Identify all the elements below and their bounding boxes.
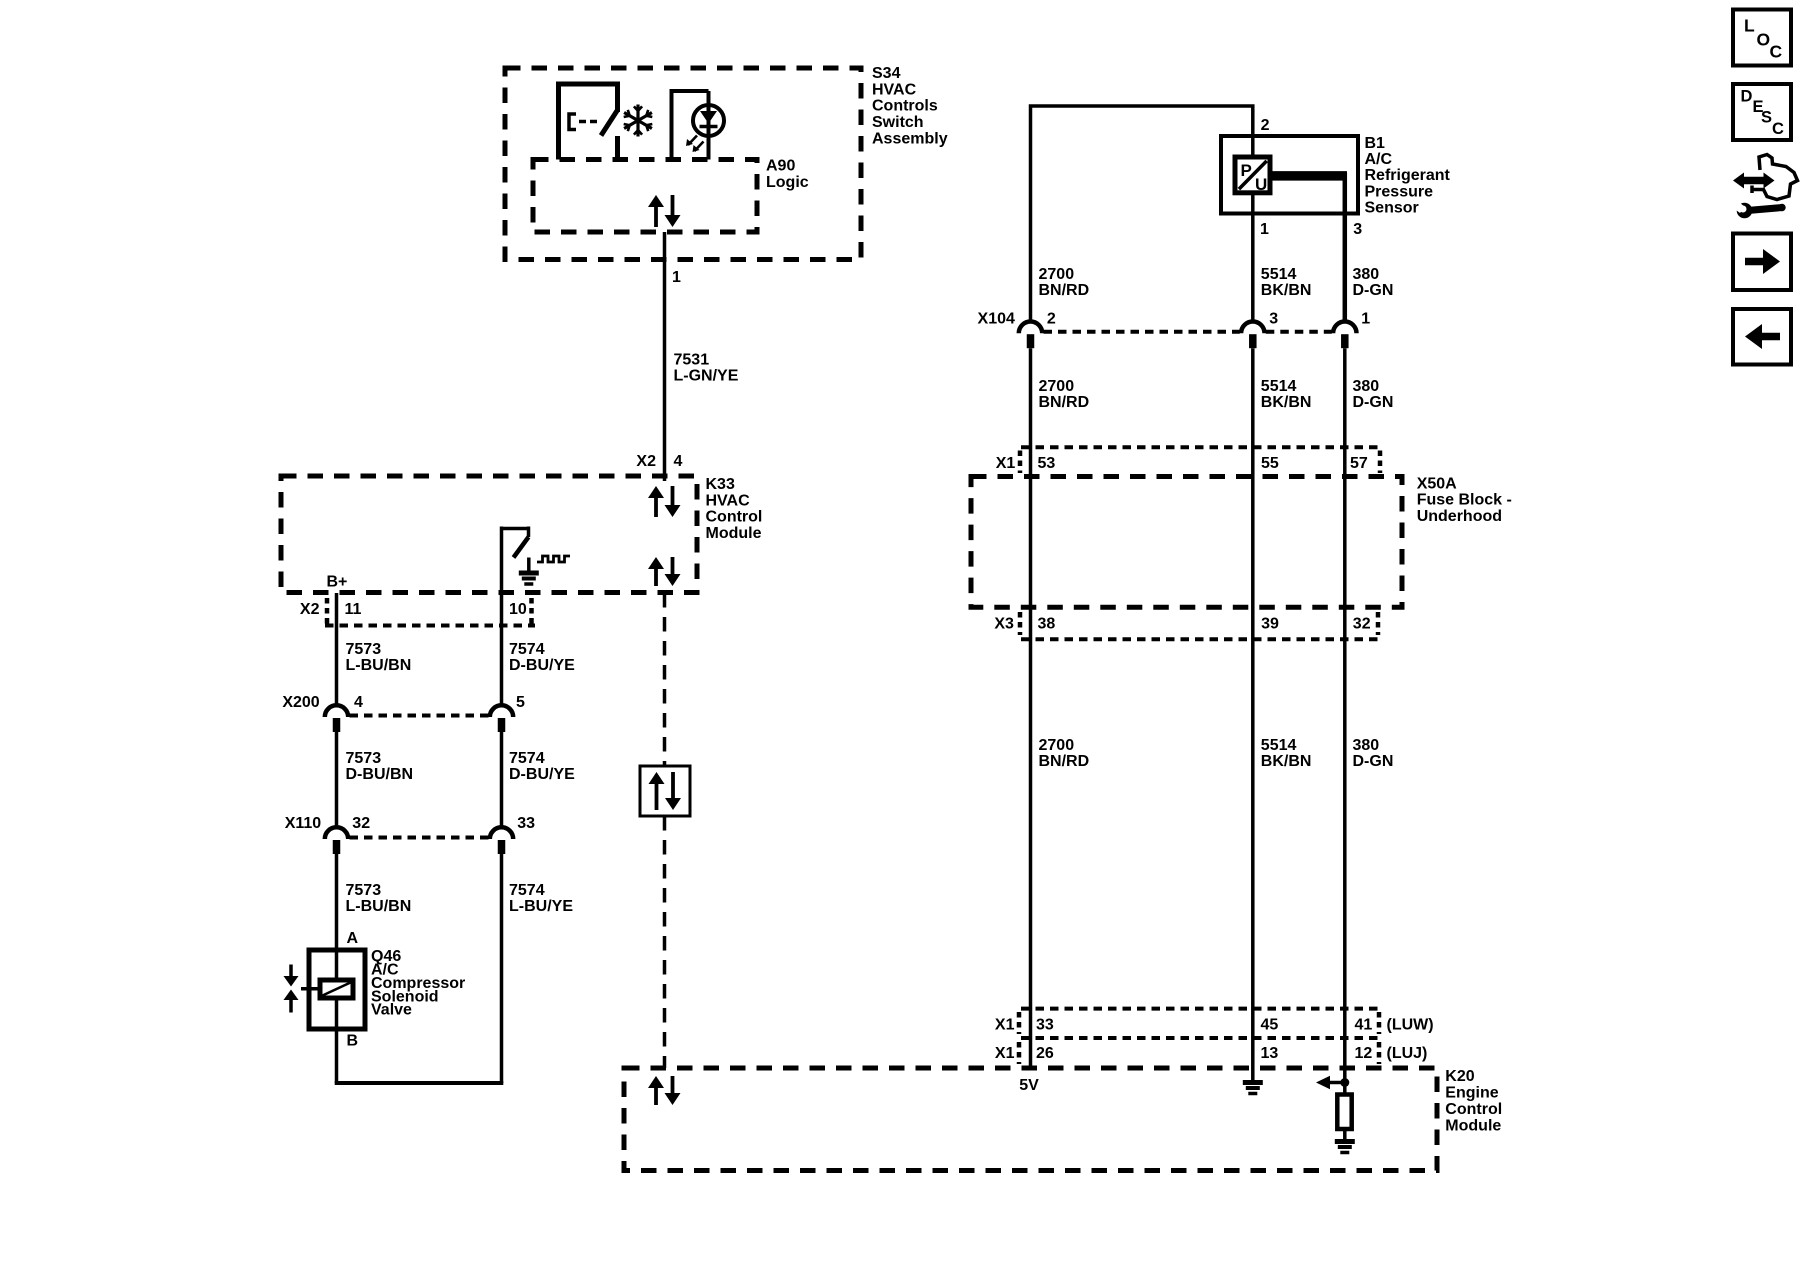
- svg-text:7574: 7574: [509, 882, 545, 899]
- svg-text:3: 3: [1353, 221, 1362, 238]
- svg-text:41: 41: [1355, 1017, 1373, 1034]
- svg-text:D: D: [1741, 88, 1753, 106]
- svg-text:Sensor: Sensor: [1365, 200, 1419, 217]
- svg-text:2: 2: [1261, 117, 1270, 134]
- svg-text:B: B: [347, 1033, 359, 1050]
- svg-text:7574: 7574: [509, 641, 545, 658]
- svg-text:7574: 7574: [509, 750, 545, 767]
- svg-text:(LUW): (LUW): [1387, 1017, 1434, 1034]
- svg-text:D-BU/BN: D-BU/BN: [346, 766, 414, 783]
- svg-text:X200: X200: [282, 694, 319, 711]
- svg-text:C: C: [1770, 42, 1783, 62]
- svg-text:BN/RD: BN/RD: [1039, 394, 1090, 411]
- svg-text:X1: X1: [995, 1045, 1015, 1062]
- svg-text:U: U: [1255, 175, 1267, 194]
- svg-text:X3: X3: [994, 616, 1014, 633]
- svg-text:BK/BN: BK/BN: [1261, 282, 1312, 299]
- svg-text:Control: Control: [1445, 1101, 1502, 1118]
- svg-text:B+: B+: [327, 574, 348, 591]
- svg-text:32: 32: [352, 815, 370, 832]
- svg-text:3: 3: [1269, 311, 1278, 328]
- svg-text:HVAC: HVAC: [706, 492, 751, 509]
- svg-text:53: 53: [1038, 455, 1056, 472]
- svg-text:12: 12: [1355, 1045, 1373, 1062]
- svg-text:39: 39: [1261, 616, 1279, 633]
- svg-text:5514: 5514: [1261, 378, 1297, 395]
- svg-text:1: 1: [1260, 221, 1269, 238]
- svg-text:57: 57: [1350, 455, 1368, 472]
- svg-text:13: 13: [1261, 1045, 1279, 1062]
- svg-text:380: 380: [1353, 266, 1380, 283]
- svg-text:Control: Control: [706, 509, 763, 526]
- svg-text:X50A: X50A: [1417, 475, 1457, 492]
- svg-text:K33: K33: [706, 476, 735, 493]
- svg-text:C: C: [1772, 120, 1784, 138]
- svg-text:D-GN: D-GN: [1353, 753, 1394, 770]
- svg-text:X2: X2: [300, 601, 320, 618]
- svg-text:4: 4: [354, 694, 363, 711]
- svg-text:32: 32: [1353, 616, 1371, 633]
- svg-text:38: 38: [1038, 616, 1056, 633]
- svg-text:X104: X104: [978, 311, 1015, 328]
- svg-text:55: 55: [1261, 455, 1279, 472]
- svg-text:BK/BN: BK/BN: [1261, 394, 1312, 411]
- svg-text:K20: K20: [1445, 1068, 1474, 1085]
- svg-text:A: A: [347, 930, 359, 947]
- svg-text:O: O: [1757, 30, 1771, 50]
- svg-text:L-BU/BN: L-BU/BN: [346, 898, 412, 915]
- svg-text:S34: S34: [872, 65, 901, 82]
- svg-text:L: L: [1744, 16, 1755, 36]
- svg-text:Module: Module: [706, 525, 762, 542]
- svg-text:Engine: Engine: [1445, 1085, 1498, 1102]
- svg-text:7573: 7573: [346, 641, 382, 658]
- svg-text:P: P: [1241, 161, 1252, 180]
- svg-text:BN/RD: BN/RD: [1039, 753, 1090, 770]
- svg-text:L-BU/BN: L-BU/BN: [346, 657, 412, 674]
- svg-text:BK/BN: BK/BN: [1261, 753, 1312, 770]
- svg-text:1: 1: [1361, 311, 1370, 328]
- svg-text:Switch: Switch: [872, 114, 924, 131]
- svg-text:Assembly: Assembly: [872, 130, 948, 147]
- svg-text:(LUJ): (LUJ): [1387, 1045, 1428, 1062]
- svg-text:Refrigerant: Refrigerant: [1365, 167, 1451, 184]
- svg-text:33: 33: [517, 815, 535, 832]
- svg-text:X1: X1: [995, 1017, 1015, 1034]
- svg-text:Module: Module: [1445, 1117, 1501, 1134]
- svg-text:380: 380: [1353, 737, 1380, 754]
- svg-text:380: 380: [1353, 378, 1380, 395]
- svg-text:Logic: Logic: [766, 174, 809, 191]
- svg-text:7573: 7573: [346, 882, 382, 899]
- svg-text:2700: 2700: [1039, 378, 1075, 395]
- svg-text:X110: X110: [285, 815, 322, 832]
- svg-text:2: 2: [1047, 311, 1056, 328]
- svg-text:1: 1: [672, 269, 681, 286]
- svg-text:10: 10: [509, 601, 527, 618]
- svg-text:BN/RD: BN/RD: [1039, 282, 1090, 299]
- svg-text:4: 4: [674, 453, 683, 470]
- svg-text:26: 26: [1036, 1045, 1054, 1062]
- svg-text:L-BU/YE: L-BU/YE: [509, 898, 573, 915]
- svg-text:B1: B1: [1365, 135, 1386, 152]
- svg-text:11: 11: [345, 601, 362, 618]
- svg-text:33: 33: [1036, 1017, 1054, 1034]
- svg-text:5514: 5514: [1261, 266, 1297, 283]
- svg-text:2700: 2700: [1039, 737, 1075, 754]
- svg-text:D-GN: D-GN: [1353, 394, 1394, 411]
- svg-text:5514: 5514: [1261, 737, 1297, 754]
- svg-text:L-GN/YE: L-GN/YE: [674, 368, 739, 385]
- svg-text:S: S: [1761, 109, 1772, 127]
- svg-text:Underhood: Underhood: [1417, 508, 1502, 525]
- svg-text:7531: 7531: [674, 352, 710, 369]
- svg-text:A90: A90: [766, 158, 795, 175]
- svg-text:D-GN: D-GN: [1353, 282, 1394, 299]
- svg-text:Fuse Block -: Fuse Block -: [1417, 492, 1512, 509]
- svg-text:7573: 7573: [346, 750, 382, 767]
- svg-text:X1: X1: [996, 455, 1016, 472]
- svg-text:45: 45: [1261, 1017, 1279, 1034]
- svg-text:A/C: A/C: [1365, 151, 1393, 168]
- svg-text:X2: X2: [636, 453, 656, 470]
- svg-text:Controls: Controls: [872, 98, 938, 115]
- svg-text:D-BU/YE: D-BU/YE: [509, 766, 575, 783]
- svg-text:5: 5: [516, 694, 525, 711]
- svg-text:Pressure: Pressure: [1365, 183, 1434, 200]
- svg-text:2700: 2700: [1039, 266, 1075, 283]
- svg-text:D-BU/YE: D-BU/YE: [509, 657, 575, 674]
- svg-text:5V: 5V: [1019, 1077, 1039, 1094]
- svg-text:HVAC: HVAC: [872, 81, 917, 98]
- svg-text:Valve: Valve: [371, 1002, 412, 1019]
